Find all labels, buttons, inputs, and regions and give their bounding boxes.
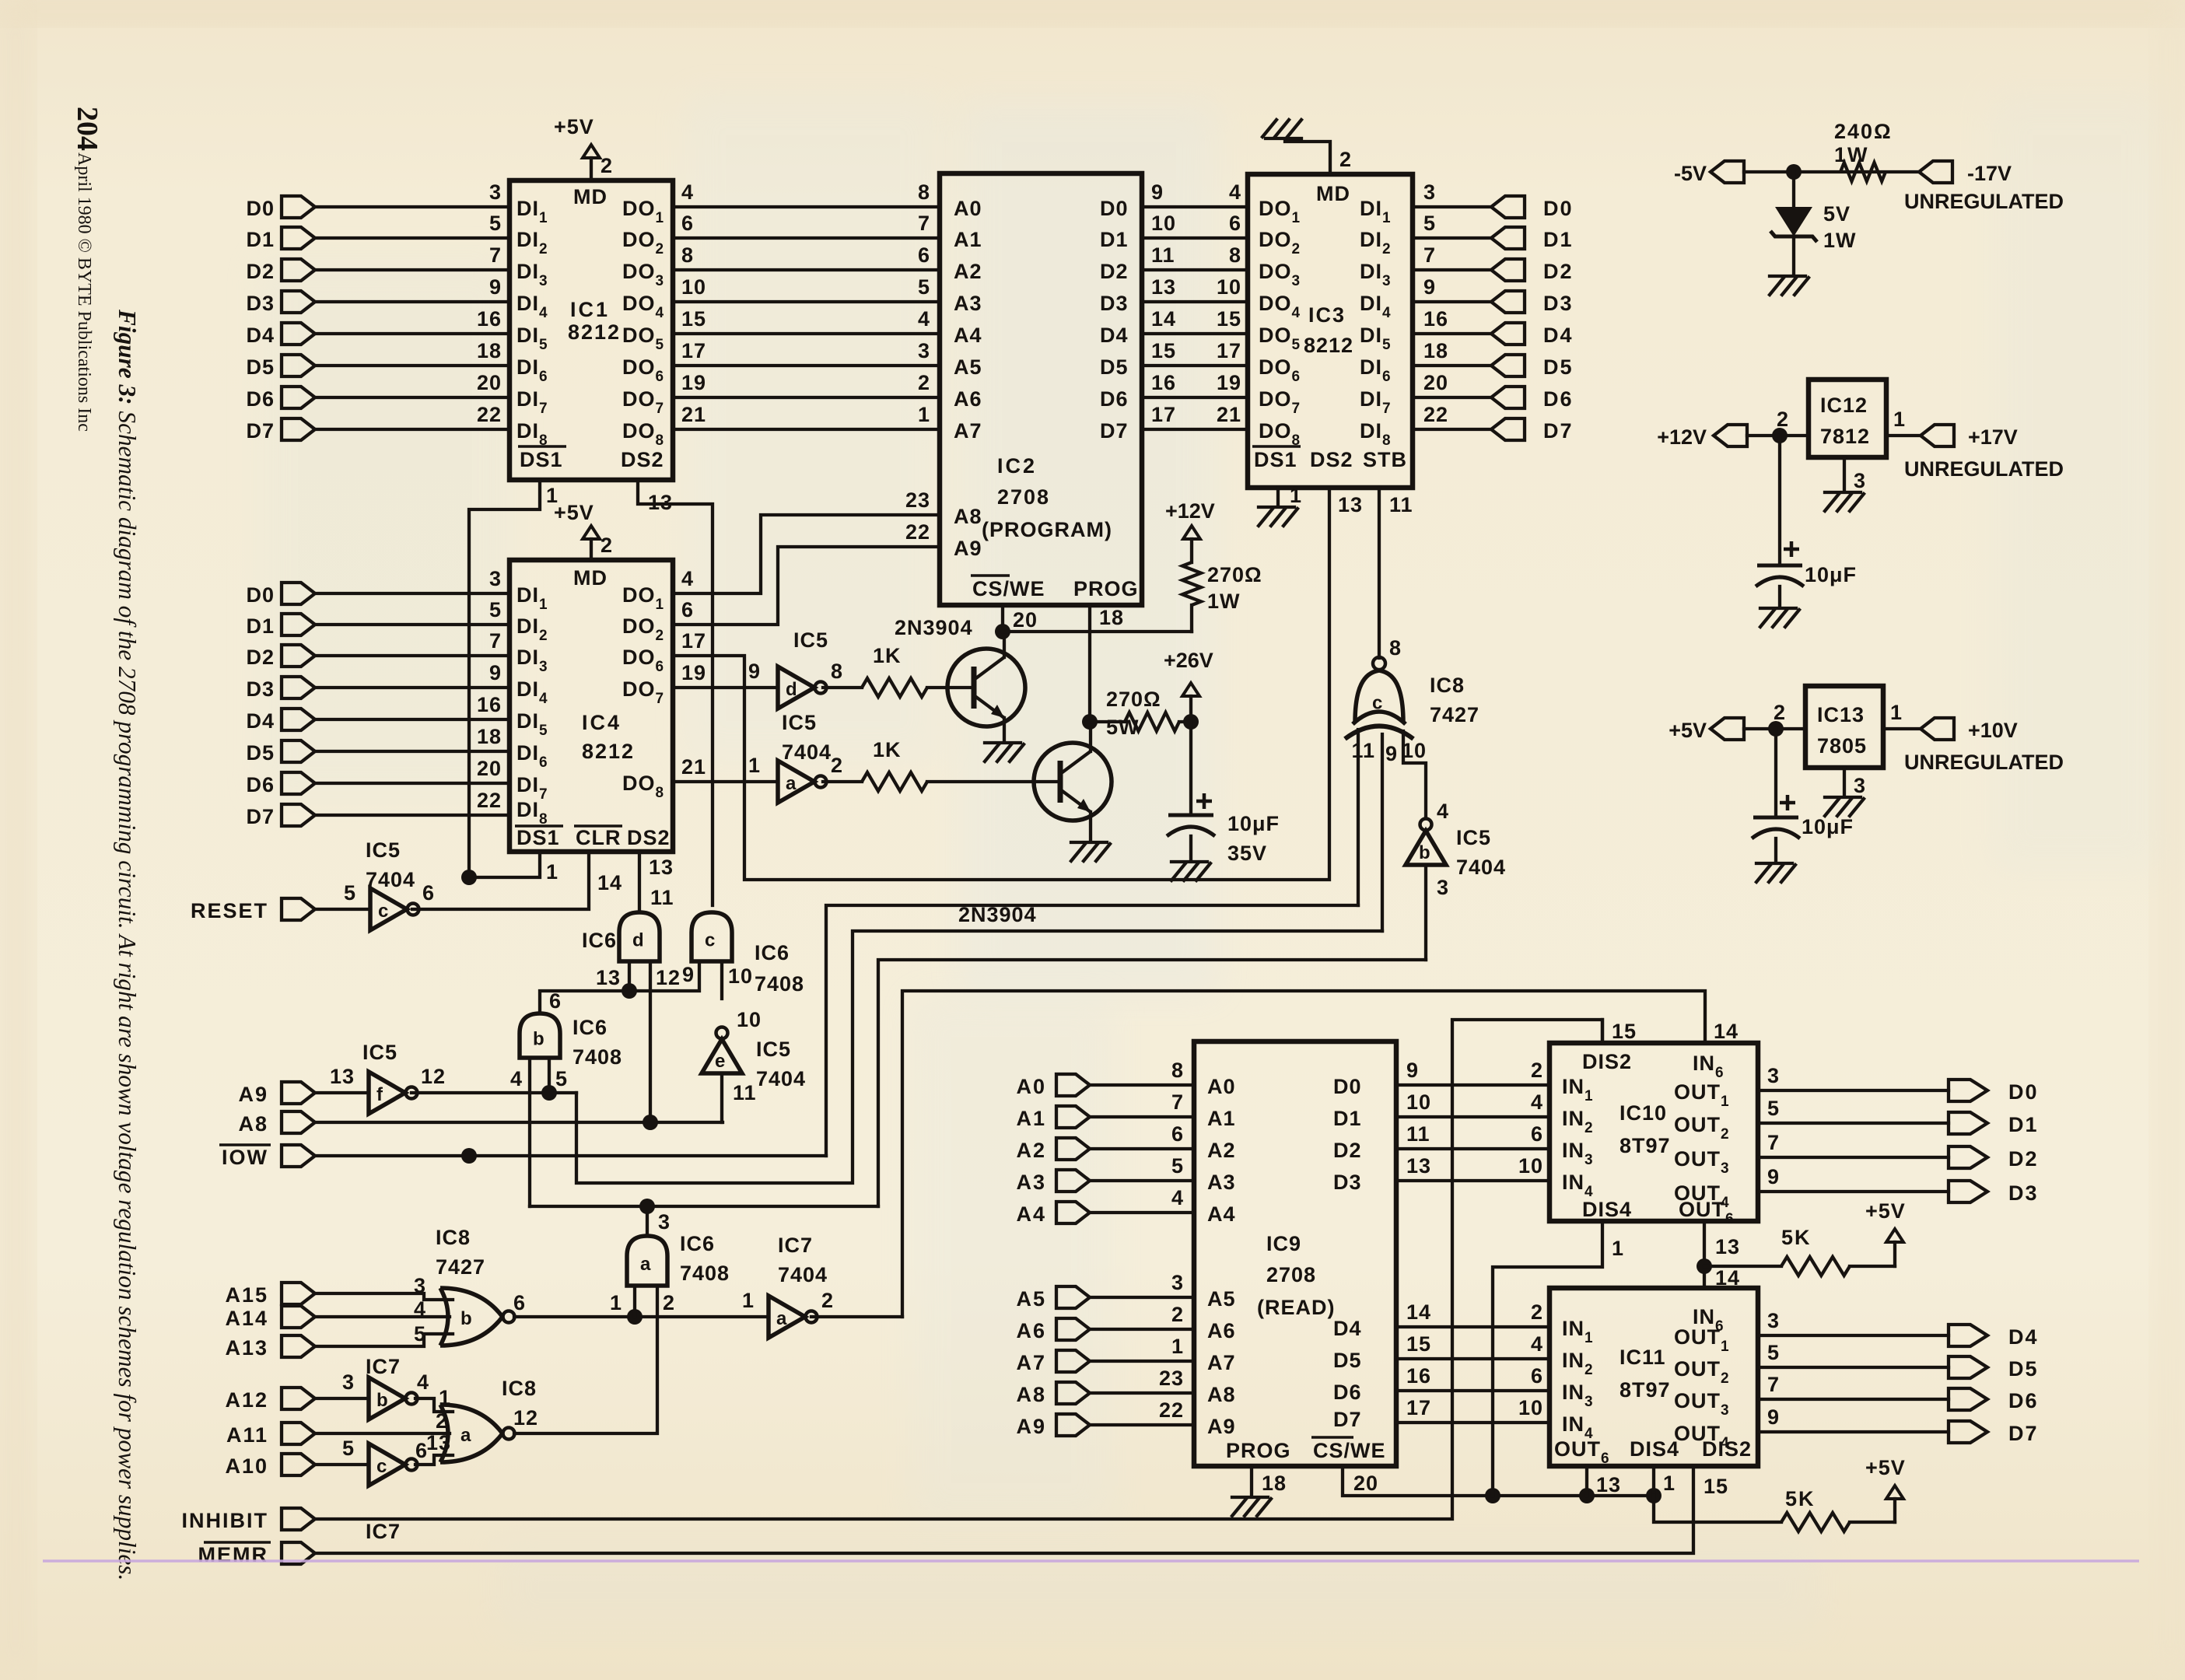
ground IC12 pin 3 (1843, 457, 1846, 490)
wire IC10 OUT4 to D3 bus (1758, 1190, 1949, 1193)
svg-text:10: 10 (737, 1008, 762, 1031)
wire IC3 DI7 to D6 bus (1413, 396, 1491, 399)
svg-text:5: 5 (555, 1067, 568, 1090)
IC12 7812 regulator (1809, 380, 1886, 457)
wire +12V to IC12 (1747, 434, 1809, 437)
wire D6 to IC4 DI7 (315, 782, 509, 785)
svg-text:2: 2 (1171, 1303, 1184, 1326)
svg-text:A5: A5 (954, 355, 982, 379)
svg-text:9: 9 (1767, 1165, 1780, 1188)
svg-text:5: 5 (414, 1322, 426, 1346)
svg-text:c: c (376, 1456, 387, 1477)
svg-text:35V: 35V (1227, 842, 1267, 865)
junction +12V node (1772, 428, 1788, 443)
capacitor 10uF at +12V (1778, 436, 1781, 565)
svg-text:D7: D7 (246, 805, 275, 828)
svg-text:April 1980 © BYTE Publications: April 1980 © BYTE Publications Inc (74, 152, 94, 432)
svg-text:D3: D3 (246, 677, 275, 701)
svg-text:D3: D3 (1100, 292, 1129, 315)
svg-text:DIS4: DIS4 (1630, 1437, 1679, 1461)
svg-text:6: 6 (681, 598, 694, 621)
svg-text:A1: A1 (1207, 1107, 1236, 1130)
svg-text:IC3: IC3 (1308, 303, 1346, 327)
svg-text:22: 22 (477, 789, 502, 812)
svg-text:A3: A3 (1016, 1171, 1046, 1194)
svg-text:8: 8 (681, 243, 694, 267)
svg-text:D0: D0 (1333, 1075, 1362, 1098)
svg-text:RESET: RESET (191, 899, 268, 922)
wire IC6c input 10 from IC5e output (720, 961, 723, 999)
svg-text:5V: 5V (1823, 202, 1851, 226)
wire IC13 out to +10V (1883, 727, 1921, 730)
resistor 240 ohm 1W (1840, 163, 1886, 181)
svg-text:10: 10 (1518, 1154, 1543, 1178)
junction IC8b out / IC6a.1 (627, 1309, 643, 1325)
svg-text:b: b (376, 1390, 388, 1411)
svg-text:A6: A6 (954, 387, 982, 411)
svg-text:6: 6 (681, 212, 694, 235)
wire IC1 DO3 to IC2 A2 (673, 268, 940, 271)
svg-text:A0: A0 (1016, 1075, 1046, 1098)
connector D5 (buffer output) (1949, 1356, 1987, 1378)
svg-text:A15: A15 (225, 1283, 268, 1307)
wire IC5e input 11 from A8 line (720, 1073, 723, 1122)
ground at IC3 DS1 pin 1 (1276, 488, 1280, 506)
svg-text:D3: D3 (246, 292, 275, 315)
wire IC9 D1 to IC10 IN2 (1396, 1115, 1549, 1118)
svg-text:7: 7 (489, 243, 502, 267)
svg-text:A12: A12 (225, 1388, 268, 1412)
svg-text:A7: A7 (1207, 1351, 1236, 1374)
wire IC4 DO7 to IC5d input 9 (673, 686, 778, 689)
wire D4 to IC1 DI5 (315, 332, 509, 335)
svg-text:10: 10 (728, 964, 753, 988)
svg-text:D2: D2 (1543, 260, 1574, 283)
svg-text:c: c (1372, 693, 1382, 714)
svg-text:2: 2 (831, 754, 843, 777)
svg-text:16: 16 (1406, 1364, 1431, 1388)
wire IC9 D3 to IC10 IN4 (1396, 1179, 1549, 1182)
connector D2 (IC3 output) (1491, 259, 1525, 281)
svg-text:3: 3 (1854, 469, 1866, 492)
svg-text:DS2: DS2 (621, 448, 664, 471)
wire IC3 DI2 to D1 bus (1413, 236, 1491, 240)
svg-text:-17V: -17V (1967, 162, 2012, 185)
svg-text:D7: D7 (1100, 419, 1129, 443)
svg-text:IC1: IC1 (570, 298, 610, 321)
svg-text:6: 6 (918, 243, 930, 267)
svg-text:20: 20 (1013, 608, 1038, 632)
svg-text:4: 4 (417, 1370, 429, 1394)
svg-text:10: 10 (1151, 212, 1176, 235)
svg-text:1W: 1W (1834, 143, 1869, 166)
connector D4 (IC3 output) (1491, 323, 1525, 345)
connector +10V (1921, 718, 1954, 740)
svg-text:A4: A4 (1016, 1202, 1046, 1226)
wire IC6b input 5 from A9-inverted (548, 1058, 551, 1093)
NOR gate IC8 b (440, 1288, 502, 1346)
svg-text:A8: A8 (954, 505, 982, 528)
wire IC6d input 13 from IC6b output (540, 961, 699, 1013)
wire IC8c input 10 from IC5b output 4 (1403, 731, 1426, 818)
svg-text:b: b (533, 1029, 544, 1050)
svg-text:8212: 8212 (582, 740, 635, 763)
wire select net (IC6a out) to IC5b pin 3 (878, 960, 1426, 1206)
wire A1 to IC9 (1090, 1115, 1194, 1118)
wire D2 to IC1 DI3 (315, 268, 509, 271)
svg-text:D4: D4 (2008, 1325, 2039, 1349)
svg-text:7427: 7427 (1430, 703, 1479, 726)
svg-text:9: 9 (1423, 275, 1436, 299)
svg-text:1W: 1W (1207, 590, 1241, 613)
svg-text:3: 3 (414, 1274, 426, 1297)
svg-text:3: 3 (489, 180, 502, 204)
svg-text:17: 17 (681, 339, 706, 362)
svg-text:D0: D0 (246, 197, 275, 220)
svg-text:9: 9 (489, 661, 502, 684)
wire CS/WE node to 270ohm 1W (1003, 630, 1192, 633)
wire Q2 collector to PROG node (1089, 722, 1092, 751)
svg-text:IC6: IC6 (573, 1016, 608, 1039)
svg-text:19: 19 (1217, 371, 1241, 394)
svg-text:2: 2 (663, 1291, 675, 1314)
svg-text:IC5: IC5 (366, 838, 401, 862)
svg-text:15: 15 (1151, 339, 1176, 362)
+5V arrow (upper 5K) (1893, 1242, 1896, 1266)
IC11 8T97 buffer (1549, 1288, 1758, 1466)
svg-text:DS1: DS1 (516, 826, 560, 849)
svg-text:MEMR: MEMR (198, 1543, 269, 1566)
svg-text:9: 9 (1151, 180, 1164, 204)
svg-text:A9: A9 (238, 1083, 268, 1106)
svg-text:1: 1 (1290, 484, 1302, 507)
connector +5V (1711, 718, 1744, 740)
svg-text:A9: A9 (1207, 1415, 1236, 1438)
svg-text:+5V: +5V (554, 115, 594, 138)
wire IC3 DI4 to D3 bus (1413, 300, 1491, 303)
svg-text:IC7: IC7 (778, 1234, 813, 1257)
svg-text:f: f (376, 1084, 383, 1105)
svg-text:2: 2 (918, 371, 930, 394)
junction +26V node (1183, 714, 1199, 730)
svg-text:1: 1 (742, 1289, 755, 1312)
wire IC11 OUT2 to D5 bus (1758, 1366, 1949, 1369)
svg-text:A8: A8 (1016, 1383, 1046, 1406)
connector D5 (IC3 output) (1491, 355, 1525, 376)
svg-text:-5V: -5V (1674, 162, 1707, 185)
svg-text:22: 22 (1159, 1398, 1184, 1422)
svg-text:DIS2: DIS2 (1702, 1437, 1752, 1461)
+5V arrow (lower 5K) (1893, 1499, 1896, 1522)
svg-text:1: 1 (1171, 1335, 1184, 1358)
svg-text:11: 11 (1389, 493, 1413, 516)
wire IC1 DO2 to IC2 A1 (673, 236, 940, 240)
svg-text:D6: D6 (2008, 1389, 2039, 1412)
svg-text:1: 1 (546, 860, 559, 884)
svg-text:4: 4 (510, 1067, 523, 1090)
svg-text:6: 6 (1229, 212, 1241, 235)
connector +17V (1921, 425, 1954, 446)
ground below 10uF cap (1760, 608, 1799, 627)
svg-text:IC5: IC5 (782, 711, 817, 734)
svg-text:4: 4 (1531, 1090, 1543, 1114)
wire IC7a out to IC10 IN6 pin 14 (902, 991, 1705, 1317)
wire Q1 collector to CS/WE node (1003, 632, 1006, 657)
svg-text:D0: D0 (246, 583, 275, 607)
inverter IC5 e (702, 1039, 742, 1073)
svg-text:8: 8 (831, 660, 843, 683)
svg-text:A14: A14 (225, 1307, 268, 1330)
IC2 2708 PROGRAM EPROM (940, 173, 1142, 605)
svg-text:7812: 7812 (1820, 425, 1870, 448)
svg-text:A4: A4 (954, 324, 982, 347)
svg-text:9: 9 (489, 275, 502, 299)
svg-text:10: 10 (1406, 1090, 1431, 1114)
wire D6 to IC1 DI7 (315, 396, 509, 399)
svg-text:DS1: DS1 (1254, 448, 1297, 471)
svg-text:IC4: IC4 (582, 711, 622, 734)
svg-text:D3: D3 (1333, 1171, 1362, 1194)
svg-text:2: 2 (1339, 148, 1352, 171)
svg-text:IC12: IC12 (1820, 394, 1868, 417)
inverter IC7 c (A10) (369, 1444, 405, 1486)
svg-text:18: 18 (1099, 606, 1124, 629)
svg-text:D3: D3 (2008, 1181, 2039, 1205)
svg-text:14: 14 (1151, 307, 1176, 331)
svg-text:13: 13 (596, 966, 621, 989)
svg-text:IOW: IOW (222, 1146, 268, 1169)
connector D7 (buffer output) (1949, 1421, 1987, 1443)
svg-text:22: 22 (477, 403, 502, 426)
wire IC2 D4 to IC3 DO5 (1142, 332, 1248, 335)
capacitor 10uF 35V (1189, 722, 1192, 815)
svg-text:10: 10 (1217, 275, 1241, 299)
svg-text:D1: D1 (1333, 1107, 1362, 1130)
svg-text:9: 9 (1406, 1059, 1419, 1082)
svg-text:16: 16 (1423, 307, 1448, 331)
wire A15 to IC8b.3 (315, 1293, 453, 1300)
svg-text:7404: 7404 (782, 740, 832, 764)
svg-text:D4: D4 (1333, 1317, 1362, 1340)
svg-text:+5V: +5V (1865, 1456, 1906, 1479)
svg-text:9: 9 (748, 660, 761, 683)
svg-text:2: 2 (1777, 408, 1789, 431)
wire MEMR to IC11 DIS2 pin 15 (315, 1466, 1693, 1553)
svg-text:c: c (705, 930, 715, 951)
svg-text:13: 13 (648, 491, 673, 514)
wire IC6d input 12 from A8 line (649, 961, 652, 1122)
zener diode 5V 1W (1775, 207, 1812, 236)
svg-text:7404: 7404 (1456, 856, 1506, 879)
wire D4 to IC4 DI5 (315, 718, 509, 721)
svg-text:A1: A1 (1016, 1107, 1046, 1130)
IC4 8212 latch (509, 560, 673, 852)
svg-text:UNREGULATED: UNREGULATED (1904, 751, 2064, 774)
svg-text:17: 17 (1151, 403, 1176, 426)
svg-text:IC8: IC8 (436, 1226, 471, 1249)
svg-text:IC13: IC13 (1817, 703, 1865, 726)
svg-text:4: 4 (1437, 800, 1449, 823)
svg-text:20: 20 (1353, 1472, 1378, 1495)
wire IC1 DO4 to IC2 A3 (673, 300, 940, 303)
junction A8 / IC6d.12 (643, 1115, 658, 1130)
wire 1K to Q1 base (927, 686, 947, 689)
ground IC9 PROG pin 18 (1250, 1466, 1253, 1495)
svg-text:D7: D7 (1333, 1408, 1362, 1431)
svg-text:A1: A1 (954, 228, 982, 251)
svg-text:22: 22 (905, 520, 930, 544)
svg-text:4: 4 (918, 307, 930, 331)
wire IC3 DI5 to D4 bus (1413, 332, 1491, 335)
wire IC4 DS1 pin 1 to IOW net (469, 852, 540, 877)
IC3 8212 latch (1248, 174, 1413, 488)
svg-text:5K: 5K (1781, 1226, 1812, 1249)
transistor Q1 2N3904 (947, 649, 1025, 726)
junction CS/WE node (995, 624, 1010, 639)
svg-text:D6: D6 (246, 387, 275, 411)
wire IC7b out to IC8a.1 (415, 1398, 453, 1412)
wire IC8c input 11 from IOW net (1357, 730, 1360, 905)
wire D1 to IC1 DI2 (315, 236, 509, 240)
connector -5V (1711, 161, 1744, 183)
IC10 8T97 buffer (1549, 1043, 1758, 1221)
svg-text:+12V: +12V (1165, 499, 1215, 523)
connector -17V (1919, 161, 1952, 183)
wire INHIBIT to IC10 DIS2 pin 15 (315, 1020, 1602, 1519)
svg-text:+5V: +5V (1865, 1199, 1906, 1223)
svg-text:UNREGULATED: UNREGULATED (1904, 190, 2064, 213)
svg-text:IC6: IC6 (582, 929, 617, 952)
svg-text:DIS2: DIS2 (1582, 1050, 1632, 1073)
svg-text:16: 16 (477, 693, 502, 716)
connector D6 (buffer output) (1949, 1388, 1987, 1410)
wire A0 to IC9 (1090, 1083, 1194, 1087)
svg-text:D5: D5 (2008, 1357, 2039, 1381)
svg-text:15: 15 (681, 307, 706, 331)
IC13 7805 regulator (1805, 686, 1883, 768)
wire D3 to IC4 DI4 (315, 686, 509, 689)
svg-text:2N3904: 2N3904 (895, 616, 973, 639)
svg-text:4: 4 (1229, 180, 1241, 204)
svg-text:DS1: DS1 (520, 448, 563, 471)
wire IC4 DO1 to IC2 A8 pin 23 (673, 515, 940, 593)
svg-text:21: 21 (1217, 403, 1241, 426)
svg-text:A13: A13 (225, 1336, 268, 1360)
connector D2 (buffer output) (1949, 1146, 1987, 1168)
scan artifact lavender line (43, 1559, 2139, 1563)
resistor 270 ohm 5W (1090, 720, 1125, 723)
wire IC10 DIS4 pin 1 to enable net (1493, 1221, 1602, 1496)
wire IC2 D6 to IC3 DO7 (1142, 396, 1248, 399)
svg-text:7427: 7427 (436, 1255, 485, 1279)
wire IC9 D7 to IC11 IN4 (1396, 1421, 1549, 1424)
svg-text:CS/WE: CS/WE (1313, 1439, 1386, 1462)
wire IC5b input 3 from select net (1424, 865, 1427, 960)
svg-text:270Ω: 270Ω (1207, 563, 1262, 586)
svg-text:20: 20 (477, 757, 502, 780)
junction IC6b out node (622, 983, 637, 999)
svg-text:A0: A0 (1207, 1075, 1236, 1098)
wire IC3 DI6 to D5 bus (1413, 364, 1491, 367)
svg-text:5W: 5W (1106, 716, 1140, 739)
connector +12V (1714, 425, 1747, 446)
svg-text:4: 4 (681, 567, 694, 590)
svg-text:A10: A10 (225, 1454, 268, 1478)
wire IC4 DO8 to IC5a input 1 (673, 780, 778, 783)
IC1 8212 latch (509, 180, 673, 480)
svg-text:10μF: 10μF (1227, 812, 1280, 835)
wire IOW line (315, 1154, 826, 1157)
svg-text:D6: D6 (246, 773, 275, 796)
wire IC2 PROG pin 18 node (1088, 605, 1091, 722)
svg-text:A5: A5 (1207, 1287, 1236, 1311)
wire D5 to IC4 DI6 (315, 750, 509, 753)
junction DS1 net / IOW vertical (461, 870, 477, 885)
svg-text:5: 5 (918, 275, 930, 299)
svg-text:7: 7 (1767, 1131, 1780, 1154)
wire A6 to IC9 (1090, 1328, 1194, 1331)
svg-text:2: 2 (601, 534, 613, 557)
wire IC2 D2 to IC3 DO3 (1142, 268, 1248, 271)
svg-text:4: 4 (1531, 1332, 1543, 1356)
svg-text:+12V: +12V (1657, 425, 1707, 449)
wire IC3 DI8 to D7 bus (1413, 428, 1491, 431)
svg-text:10μF: 10μF (1802, 815, 1854, 838)
svg-text:D1: D1 (2008, 1113, 2039, 1136)
svg-text:3: 3 (342, 1370, 355, 1394)
wire IC10 OUT6 pin 13 to IC11 IN6 pin 14 (1703, 1221, 1706, 1288)
wire D0 to IC1 DI1 (315, 205, 509, 208)
wire IC2 D5 to IC3 DO6 (1142, 364, 1248, 367)
connector D1 (buffer output) (1949, 1112, 1987, 1134)
svg-text:+10V: +10V (1968, 719, 2018, 742)
wire 1K to Q2 base (927, 780, 1034, 783)
svg-text:D2: D2 (1100, 260, 1129, 283)
svg-text:2: 2 (1774, 701, 1786, 724)
wire IC4 DS2 pin 13 from IC6d output 11 (638, 852, 641, 912)
wire D2 to IC4 DI3 (315, 654, 509, 657)
svg-text:D7: D7 (2008, 1422, 2039, 1445)
svg-text:MD: MD (573, 185, 608, 208)
svg-text:3: 3 (658, 1210, 671, 1234)
svg-text:1: 1 (1893, 408, 1906, 431)
svg-text:3: 3 (1171, 1271, 1184, 1294)
svg-text:8T97: 8T97 (1619, 1134, 1671, 1157)
svg-text:D7: D7 (246, 419, 275, 443)
wire A9 to IC9 (1090, 1423, 1194, 1426)
wire A8 line (315, 1121, 723, 1124)
svg-text:12: 12 (513, 1406, 538, 1430)
svg-text:IC6: IC6 (755, 941, 790, 964)
svg-text:16: 16 (1151, 371, 1176, 394)
svg-text:A8: A8 (1207, 1383, 1236, 1406)
svg-text:15: 15 (1704, 1475, 1728, 1498)
svg-text:2: 2 (821, 1289, 834, 1312)
svg-text:3: 3 (1767, 1064, 1780, 1087)
svg-text:IC5: IC5 (1456, 826, 1491, 849)
svg-text:5: 5 (1171, 1154, 1184, 1178)
svg-text:D4: D4 (1543, 324, 1574, 347)
IC9 2708 READ EPROM (1194, 1041, 1396, 1466)
svg-text:10: 10 (681, 275, 706, 299)
resistor 1K (Q1 base) (862, 678, 927, 697)
svg-text:2708: 2708 (1266, 1263, 1316, 1286)
svg-text:c: c (378, 901, 388, 922)
svg-text:6: 6 (1171, 1122, 1184, 1146)
wire A8 to IC9 (1090, 1391, 1194, 1395)
svg-text:1: 1 (610, 1291, 622, 1314)
svg-text:7408: 7408 (755, 972, 804, 996)
